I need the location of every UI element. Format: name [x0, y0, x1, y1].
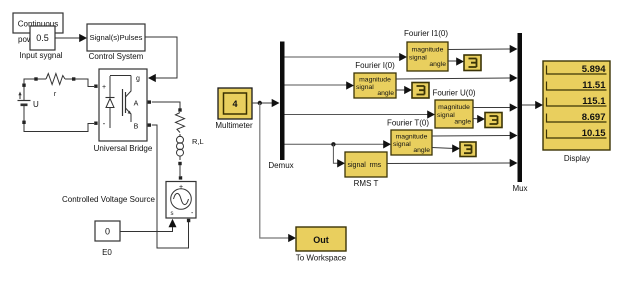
port left of resistor r: [34, 77, 37, 80]
svg-text:RMS T: RMS T: [354, 179, 379, 188]
Fourier I1(0) block: [407, 42, 448, 71]
DC voltage source U (battery): [18, 86, 40, 121]
svg-text:Multimeter: Multimeter: [215, 121, 253, 130]
wire I1(0) magnitude to Mux: [448, 45, 518, 53]
To Workspace block (Out): [296, 227, 347, 263]
inductor of R,L branch: [177, 134, 184, 160]
terminator T4: [460, 142, 476, 157]
Multimeter block: [215, 88, 253, 130]
terminator T1: [464, 55, 481, 71]
svg-text:angle: angle: [429, 61, 446, 68]
wire U(0) angle to terminator: [473, 115, 485, 123]
port bottom of U: [22, 121, 25, 124]
wire I(0) magnitude to Mux: [396, 74, 518, 82]
wire U bottom to bridge -: [24, 124, 94, 132]
wire T(0) angle to terminator: [432, 144, 460, 152]
svg-text:0: 0: [105, 227, 110, 237]
svg-text:+: +: [102, 84, 106, 91]
wire I(0) angle to terminator: [396, 86, 412, 94]
svg-text:Controlled Voltage Source: Controlled Voltage Source: [62, 195, 156, 204]
wire Control System to bridge g: [145, 37, 177, 82]
svg-text:10.15: 10.15: [582, 128, 606, 139]
svg-text:signal: signal: [356, 84, 374, 91]
R,L label: [192, 137, 204, 146]
svg-text:To Workspace: To Workspace: [296, 254, 347, 263]
svg-text:5.894: 5.894: [582, 64, 606, 75]
svg-text:Display: Display: [564, 154, 590, 163]
wire junction to Out block: [260, 103, 296, 242]
wire bridge A to R,L branch: [152, 102, 180, 109]
svg-text:Fourier I(0): Fourier I(0): [355, 61, 395, 70]
svg-text:Demux: Demux: [268, 161, 293, 170]
Control System block: [87, 24, 145, 61]
wire Demux out2 to Fourier I(0): [285, 81, 355, 89]
wire 0.5 to Control System: [55, 34, 87, 42]
junction node: [258, 101, 262, 105]
svg-text:signal: signal: [409, 55, 427, 62]
port bottom of R,L: [178, 162, 181, 165]
Fourier I(0) label: [355, 61, 395, 70]
svg-text:-: -: [103, 119, 106, 128]
wire Mux to Display: [522, 101, 543, 109]
svg-text:Control System: Control System: [89, 52, 144, 61]
Universal Bridge label: [94, 144, 153, 153]
constant block Input sygnal (0.5): [19, 26, 62, 60]
svg-text:11.51: 11.51: [582, 80, 606, 91]
port B of bridge: [148, 123, 151, 126]
svg-text:magnitude: magnitude: [438, 104, 470, 111]
RMS block: [345, 152, 387, 188]
svg-text:0.5: 0.5: [36, 33, 49, 43]
svg-text:Mux: Mux: [512, 184, 527, 193]
port top of U: [22, 84, 25, 87]
wire bridge B to CVS -: [152, 125, 189, 248]
svg-text:g: g: [136, 76, 140, 83]
svg-text:magnitude: magnitude: [412, 47, 444, 54]
svg-text:8.697: 8.697: [582, 112, 606, 123]
wire RMS to Mux: [387, 159, 518, 167]
Mux: [512, 33, 527, 193]
svg-text:signal: signal: [348, 162, 367, 169]
svg-text:Fourier T(0): Fourier T(0): [387, 119, 429, 128]
svg-text:A: A: [134, 101, 139, 108]
terminator T2: [412, 83, 429, 99]
svg-text:angle: angle: [413, 147, 430, 154]
port top of R,L: [178, 108, 181, 111]
svg-text:rms: rms: [370, 162, 382, 169]
wire T(0) magnitude to Mux: [432, 131, 518, 139]
powergui label: [18, 35, 51, 44]
svg-text:magnitude: magnitude: [359, 77, 391, 84]
svg-text:signal: signal: [437, 112, 455, 119]
port + of bridge: [94, 85, 97, 88]
Universal Bridge internal thyristor icon: [106, 76, 132, 129]
svg-text:Out: Out: [313, 235, 329, 245]
port + of CVS: [179, 176, 182, 179]
resistor r: [46, 74, 65, 99]
wire U(0) magnitude to Mux: [473, 103, 518, 111]
wire U top to resistor r to bridge +: [24, 79, 94, 87]
svg-text:signal: signal: [393, 141, 411, 148]
Controlled Voltage Source label: [62, 195, 156, 204]
wire Demux out3 to Fourier U(0): [285, 110, 436, 118]
Universal Bridge block: [99, 69, 147, 141]
svg-text:Universal Bridge: Universal Bridge: [94, 144, 153, 153]
port right of resistor r: [72, 77, 75, 80]
terminator T3: [485, 113, 502, 128]
wire Multimeter to Demux: [252, 99, 280, 107]
wire junction to RMS block: [333, 144, 345, 167]
wire Demux out4 to Fourier T(0): [285, 140, 392, 148]
svg-text:B: B: [134, 124, 139, 131]
svg-text:4: 4: [232, 99, 237, 109]
s input arrow of CVS: [169, 219, 177, 228]
resistor of R,L branch: [176, 113, 185, 133]
Demux: [268, 42, 293, 171]
svg-text:r: r: [54, 91, 57, 98]
E0 constant block: [95, 221, 120, 257]
Fourier T(0) label: [387, 119, 429, 128]
svg-text:115.1: 115.1: [582, 96, 606, 107]
powergui block (Continuous): [13, 13, 63, 33]
Fourier T(0) block: [391, 130, 432, 155]
svg-text:angle: angle: [377, 90, 394, 97]
Fourier U(0) block: [435, 100, 473, 128]
Fourier I1(0) label: [404, 29, 448, 38]
svg-text:angle: angle: [454, 119, 471, 126]
wire E0 to CVS s input: [120, 227, 173, 232]
port - of CVS: [187, 219, 190, 222]
wire Demux out1 to Fourier I1(0): [285, 53, 408, 61]
svg-text:Fourier U(0): Fourier U(0): [432, 89, 475, 98]
svg-text:Signal(s)Pulses: Signal(s)Pulses: [90, 35, 144, 42]
port A of bridge: [148, 100, 151, 103]
wire I1(0) angle to terminator: [448, 57, 464, 65]
Display block: [543, 61, 610, 163]
junction node on out4: [331, 142, 335, 146]
svg-text:U: U: [33, 100, 39, 109]
Fourier U(0) label: [432, 89, 475, 98]
Fourier I(0) block: [354, 73, 396, 98]
port - of bridge: [94, 122, 97, 125]
svg-text:R,L: R,L: [192, 137, 204, 146]
svg-text:Input sygnal: Input sygnal: [19, 51, 62, 60]
svg-text:s: s: [171, 211, 174, 217]
Controlled Voltage Source block: [166, 182, 196, 219]
svg-text:magnitude: magnitude: [396, 134, 428, 141]
wire R,L to CVS +: [179, 165, 181, 176]
svg-text:+: +: [179, 184, 183, 191]
svg-text:Fourier I1(0): Fourier I1(0): [404, 29, 448, 38]
svg-text:E0: E0: [102, 248, 112, 257]
